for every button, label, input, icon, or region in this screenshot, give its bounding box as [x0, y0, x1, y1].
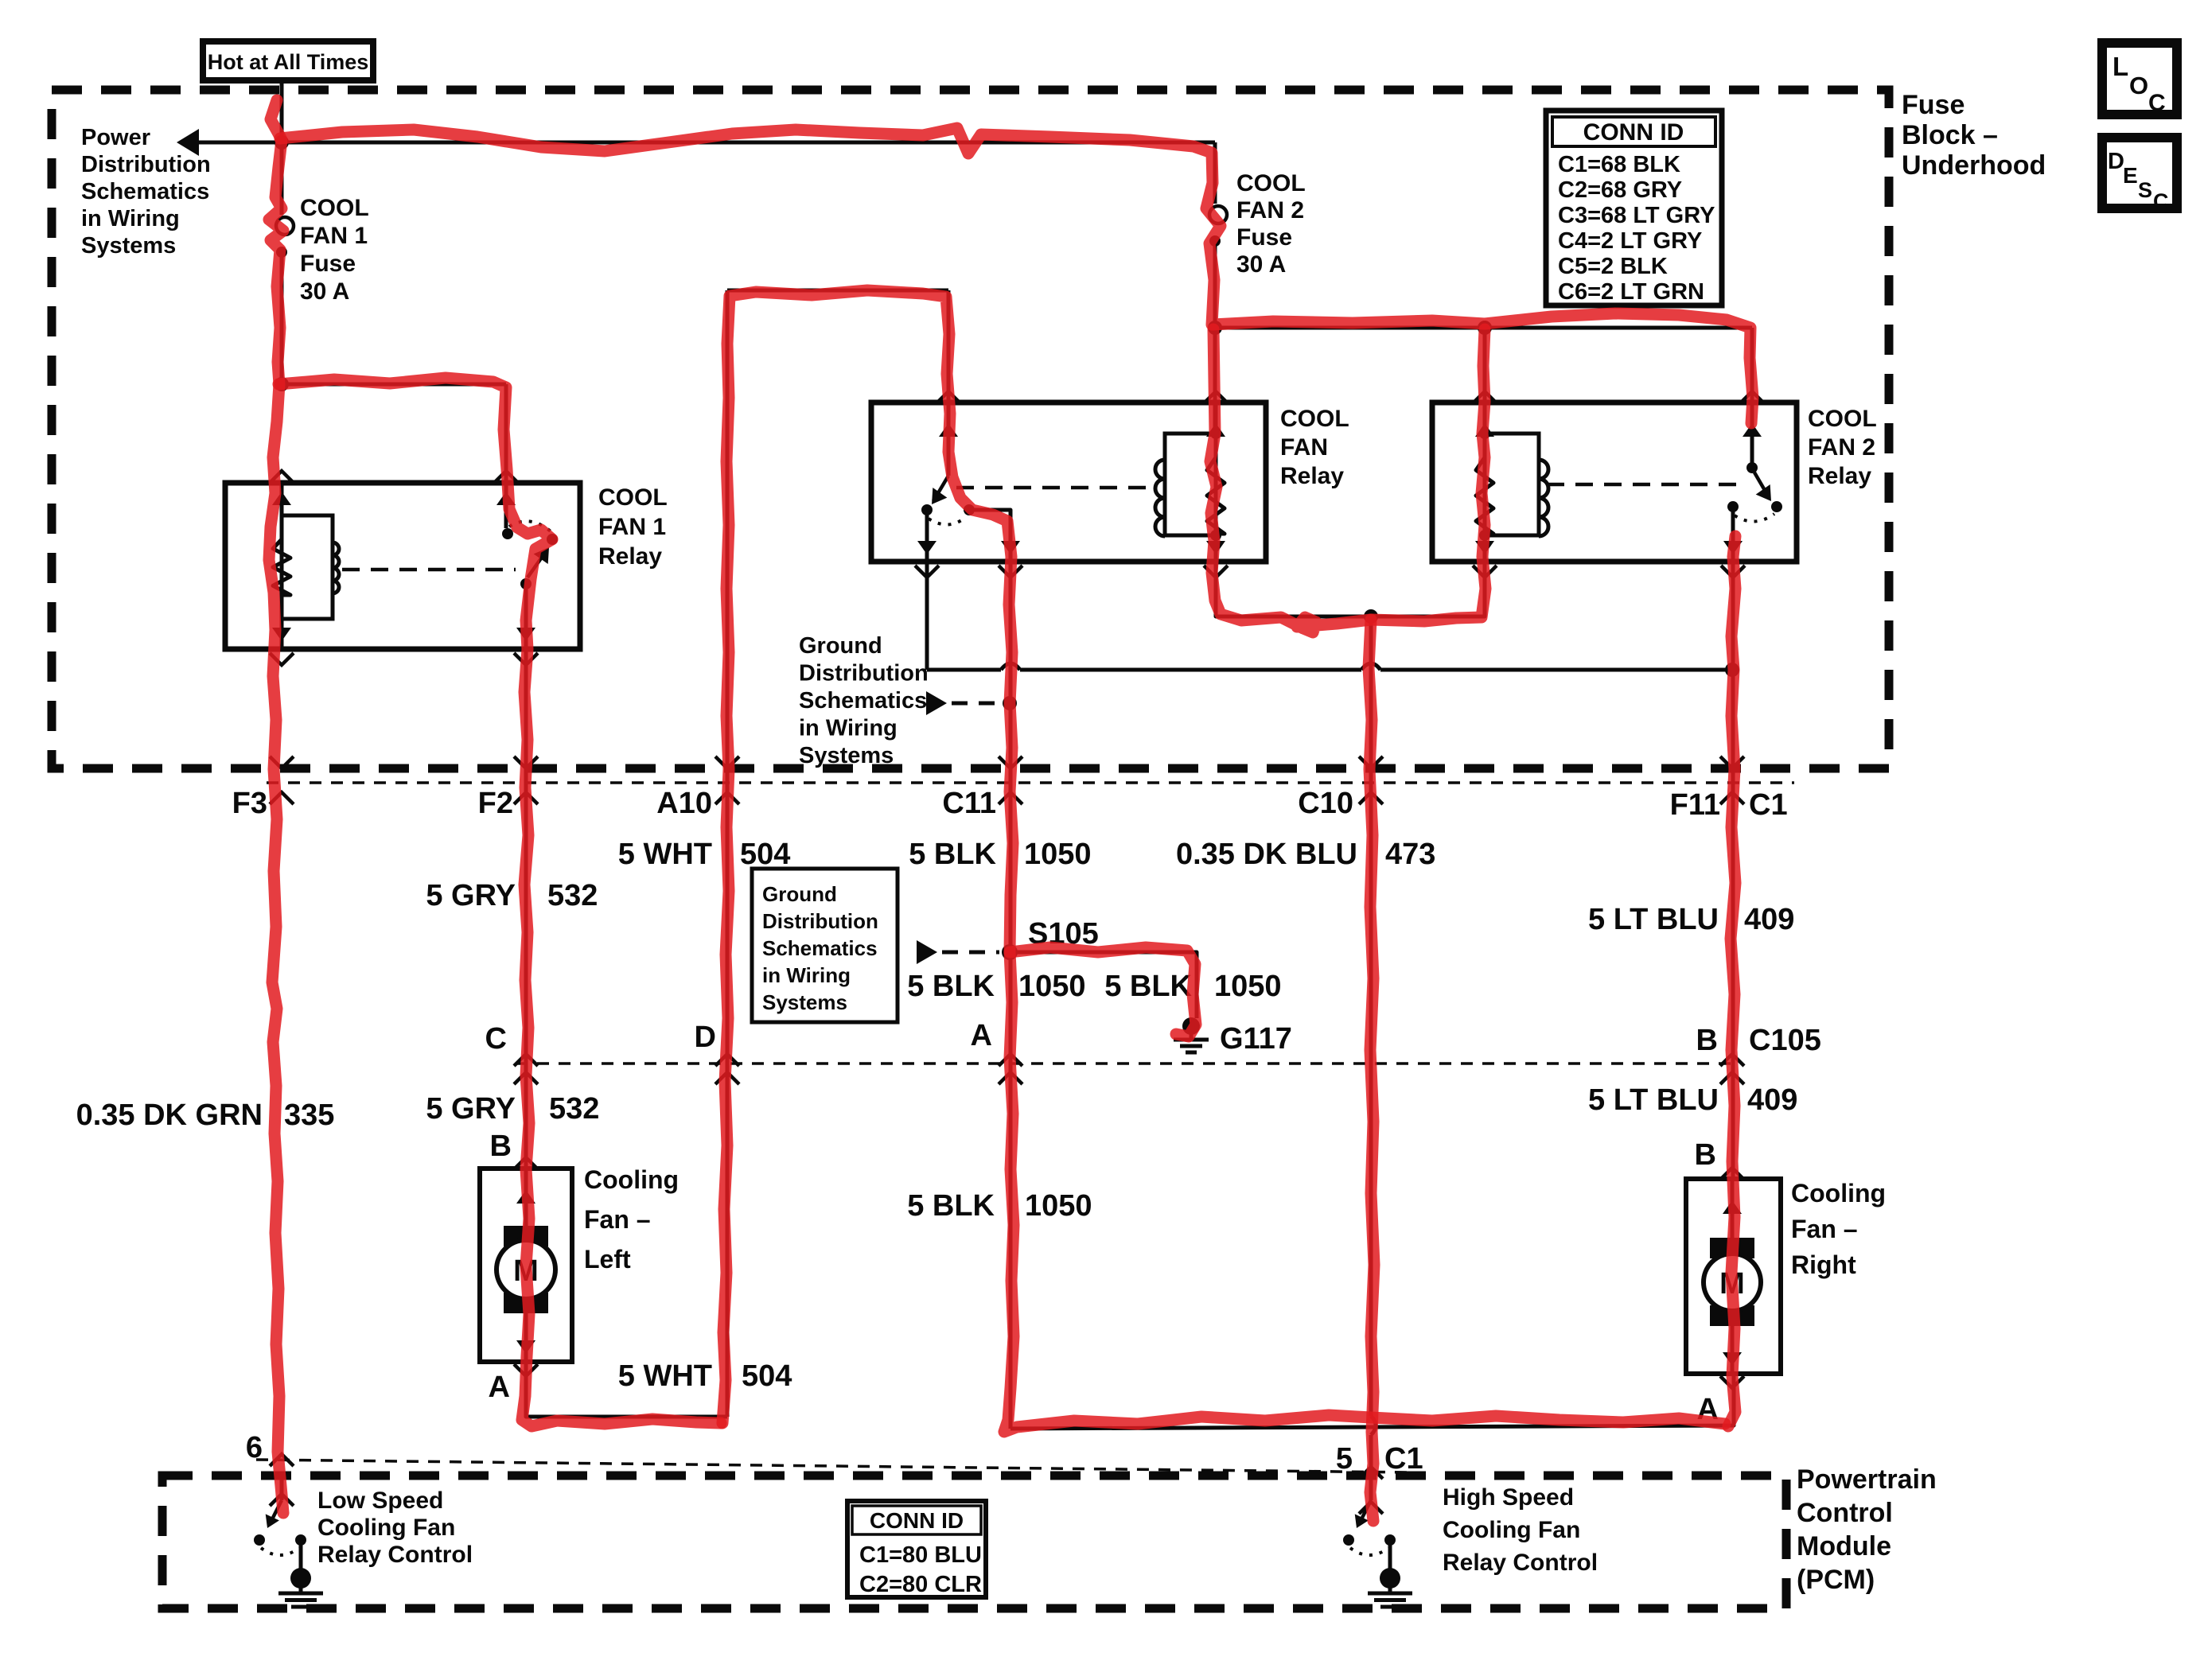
relay1 dashed link	[342, 568, 516, 572]
svg-text:Relay: Relay	[1808, 463, 1871, 489]
junction node coil bus	[1364, 609, 1378, 624]
svg-text:504: 504	[740, 838, 790, 871]
label box Hot at All Times	[203, 41, 373, 80]
right fan feed wire	[1731, 1179, 1735, 1241]
relay3 coil low wire	[1483, 535, 1487, 562]
svg-text:5 GRY: 5 GRY	[426, 1092, 516, 1126]
svg-text:Powertrain: Powertrain	[1797, 1464, 1937, 1495]
fuse block pin chevrons F3	[270, 756, 294, 768]
svg-text:Module: Module	[1797, 1531, 1891, 1561]
svg-text:C2=68 GRY: C2=68 GRY	[1558, 177, 1682, 203]
relay3 switch pivot dot	[1746, 462, 1758, 473]
svg-text:1050: 1050	[1214, 970, 1282, 1003]
right fan motor	[1710, 1238, 1754, 1258]
svg-text:Power: Power	[81, 125, 150, 150]
svg-text:30 A: 30 A	[1236, 251, 1286, 278]
relay3 switch arc	[1735, 514, 1774, 522]
wire middle relay switch feed	[947, 290, 951, 476]
svg-text:FAN: FAN	[1280, 434, 1328, 461]
svg-text:Schematics: Schematics	[762, 936, 878, 960]
relay COOL FAN box	[871, 402, 1266, 562]
svg-text:Left: Left	[584, 1245, 631, 1274]
junction node S105	[1002, 944, 1018, 960]
svg-text:F3: F3	[232, 787, 267, 820]
svg-text:Fuse: Fuse	[1236, 224, 1292, 251]
relay3 top chevrons	[1740, 391, 1764, 403]
svg-text:5 LT BLU: 5 LT BLU	[1588, 1083, 1719, 1117]
svg-text:COOL: COOL	[1280, 406, 1349, 432]
svg-text:FAN 1: FAN 1	[300, 223, 368, 249]
fuse block pin chevrons A10	[715, 756, 739, 768]
power distribution arrow	[177, 129, 199, 156]
fuse block bottom connector dashed line	[267, 781, 1794, 784]
svg-text:Cooling Fan: Cooling Fan	[1443, 1517, 1580, 1543]
DESC reference box	[2102, 138, 2177, 208]
svg-text:409: 409	[1747, 1083, 1797, 1117]
wire A10 riser	[726, 290, 730, 1417]
wire fuse2 drop	[1213, 142, 1217, 204]
wire fan2 switch output down	[1731, 562, 1735, 1179]
svg-text:5 BLK: 5 BLK	[907, 970, 995, 1003]
svg-text:5 LT BLU: 5 LT BLU	[1588, 903, 1719, 936]
svg-text:C1=68 BLK: C1=68 BLK	[1558, 152, 1680, 177]
relay1 coil resistor	[273, 539, 290, 595]
relay2 coil inductor	[1155, 460, 1165, 536]
svg-text:FAN 1: FAN 1	[598, 514, 666, 540]
svg-text:C5=2 BLK: C5=2 BLK	[1558, 254, 1668, 279]
svg-text:504: 504	[742, 1359, 792, 1393]
svg-text:C: C	[2153, 189, 2169, 213]
relay COOL FAN 2 box	[1432, 402, 1797, 562]
relay2 coil rect	[1165, 434, 1216, 535]
relay2 switch arc	[929, 517, 966, 525]
red trace high speed drop	[1369, 620, 1374, 1521]
relay1 switch pivot dot	[520, 578, 532, 589]
fuse block pin chevrons F11	[1720, 756, 1744, 768]
relay2 switch pivot dot	[921, 504, 933, 515]
svg-text:532: 532	[547, 879, 598, 912]
wire high speed control drop	[1369, 616, 1373, 1416]
relay1 bottom chevrons	[270, 653, 294, 665]
C105 pin chevrons B	[1720, 1054, 1744, 1066]
svg-text:532: 532	[549, 1092, 599, 1126]
svg-text:D: D	[2108, 149, 2124, 174]
relay1 coil inductor	[333, 542, 339, 593]
junction node ground tap	[1003, 696, 1017, 710]
relay3 coil resistor	[1476, 457, 1493, 534]
svg-text:Schematics: Schematics	[81, 179, 209, 204]
PCM high speed ground	[1380, 1568, 1400, 1589]
red trace S105 to G117	[1010, 947, 1196, 1036]
fuse COOL FAN 1 symbol	[276, 217, 294, 235]
svg-text:335: 335	[284, 1099, 334, 1132]
red trace fan2 switch output to right fan	[1728, 536, 1735, 1426]
relay2 switch contact dot	[964, 504, 975, 515]
svg-text:in Wiring: in Wiring	[799, 716, 898, 741]
svg-text:C1: C1	[1384, 1442, 1423, 1476]
svg-text:COOL: COOL	[1808, 406, 1877, 432]
svg-text:5 BLK: 5 BLK	[909, 838, 996, 871]
PCM wire pin6 entry	[280, 1476, 284, 1500]
C105 pin chevrons A	[999, 1054, 1022, 1066]
svg-text:C3=68 LT GRY: C3=68 LT GRY	[1558, 203, 1715, 228]
PCM low speed switch	[271, 1500, 282, 1522]
PCM pin chevrons pin5	[1359, 1467, 1383, 1479]
wire S105 branch	[1010, 952, 1197, 1018]
svg-text:COOL: COOL	[1236, 170, 1306, 196]
wire ground bottom run	[1010, 1374, 1734, 1429]
PCM pin chevrons pin6	[270, 1454, 294, 1466]
relay3 dashed link	[1547, 483, 1744, 487]
relay2 arrowheads	[939, 423, 958, 437]
svg-text:C: C	[2148, 90, 2166, 116]
svg-text:O: O	[2129, 72, 2148, 99]
relay3 coil dots	[1479, 428, 1490, 439]
svg-text:C105: C105	[1749, 1024, 1821, 1057]
svg-text:Systems: Systems	[762, 990, 847, 1014]
svg-text:A10: A10	[656, 787, 712, 820]
wire fan2 coil drop	[1483, 328, 1487, 434]
relay2 bottom chevrons	[915, 566, 939, 577]
svg-text:C4=2 LT GRY: C4=2 LT GRY	[1558, 228, 1702, 254]
svg-text:CONN ID: CONN ID	[1583, 119, 1684, 146]
relay3 switch output wire	[1731, 511, 1735, 562]
relay2 coil dots	[1210, 428, 1221, 439]
motor Cooling Fan Left box	[480, 1169, 572, 1362]
svg-text:COOL: COOL	[300, 195, 369, 221]
PCM dashed border	[162, 1476, 1786, 1608]
relay2 coil resistor	[1207, 457, 1225, 534]
relay1 top chevrons	[270, 471, 294, 483]
relay3 coil rect	[1485, 434, 1539, 535]
svg-text:5 GRY: 5 GRY	[426, 879, 516, 912]
fuse block underhood dashed border	[52, 90, 1889, 768]
fuse block pin chevrons F2	[514, 756, 538, 768]
red trace hot feed and low speed control	[269, 100, 283, 1513]
svg-text:Underhood: Underhood	[1902, 150, 2046, 181]
svg-text:0.35 DK GRN: 0.35 DK GRN	[76, 1099, 263, 1132]
fuse block pin chevrons C11	[999, 756, 1022, 768]
svg-text:A: A	[489, 1371, 510, 1404]
svg-text:Relay Control: Relay Control	[1443, 1550, 1598, 1576]
relay2 dashed link	[956, 486, 1154, 490]
wire F2 run	[524, 649, 528, 1169]
svg-text:Ground: Ground	[799, 633, 882, 659]
svg-text:Distribution: Distribution	[81, 152, 211, 177]
motor Cooling Fan Right box	[1686, 1179, 1781, 1374]
relay1 switch output wire	[524, 587, 528, 649]
C105 pin chevrons C	[514, 1054, 538, 1066]
svg-text:5: 5	[1336, 1442, 1353, 1476]
left fan motor	[504, 1226, 548, 1246]
ground G117 symbol	[1182, 1017, 1200, 1035]
svg-text:Cooling: Cooling	[1791, 1179, 1886, 1207]
red trace coil low bus and high speed control	[1210, 329, 1486, 632]
svg-text:A: A	[971, 1019, 992, 1052]
svg-text:Fan –: Fan –	[1791, 1215, 1858, 1243]
svg-text:FAN 2: FAN 2	[1808, 434, 1875, 461]
relay3 coil inductor	[1539, 460, 1548, 536]
PCM top connector dashed line	[256, 1460, 1408, 1472]
svg-text:6: 6	[246, 1431, 263, 1464]
svg-text:in Wiring: in Wiring	[81, 206, 180, 231]
svg-text:B: B	[1695, 1138, 1716, 1172]
svg-text:5 BLK: 5 BLK	[907, 1189, 995, 1223]
svg-text:Hot at All Times: Hot at All Times	[208, 50, 369, 74]
svg-text:C10: C10	[1298, 787, 1353, 820]
svg-text:G117: G117	[1220, 1022, 1292, 1056]
svg-text:Cooling: Cooling	[584, 1165, 679, 1194]
relay2 wire through coil	[1214, 402, 1218, 562]
relay3 switch contact dot right	[1771, 501, 1782, 512]
ground distribution leader upper	[926, 691, 947, 715]
wire hot feed to fuse 1	[280, 80, 284, 215]
wire coil low bus	[1216, 562, 1485, 616]
junction node fan2 coil feed	[1478, 321, 1492, 335]
svg-text:Low Speed: Low Speed	[317, 1487, 443, 1514]
left fan out wire	[524, 1311, 528, 1362]
relay1 coil rect	[282, 515, 333, 619]
svg-text:F2: F2	[478, 787, 513, 820]
junction node power tap	[275, 135, 289, 150]
relay1 wire through coil	[280, 483, 284, 649]
LOC reference box	[2102, 43, 2177, 115]
svg-text:C1=80 BLU: C1=80 BLU	[859, 1542, 982, 1568]
svg-text:Control: Control	[1797, 1498, 1893, 1528]
svg-text:B: B	[490, 1130, 512, 1163]
svg-text:in Wiring: in Wiring	[762, 963, 851, 987]
relay2 switch common wire	[925, 514, 929, 562]
svg-text:Distribution: Distribution	[799, 661, 929, 686]
svg-text:B: B	[1696, 1024, 1718, 1057]
red trace 5WHT riser middle relay and ground run	[722, 290, 1725, 1432]
svg-text:Relay: Relay	[1280, 463, 1344, 489]
svg-text:Systems: Systems	[799, 743, 894, 768]
svg-text:C2=80 CLR: C2=80 CLR	[859, 1572, 982, 1597]
fuse block pin chevrons C10	[1359, 756, 1383, 768]
red trace relay1 branch and left fan	[278, 378, 721, 1426]
wire left fan A run	[526, 1362, 727, 1417]
svg-text:C6=2 LT GRN: C6=2 LT GRN	[1558, 279, 1704, 305]
svg-text:Block –: Block –	[1902, 120, 1998, 150]
relay2 switch armature	[933, 476, 948, 501]
CONN ID table fuse block	[1546, 111, 1722, 305]
svg-text:Ground: Ground	[762, 882, 837, 906]
svg-text:Cooling Fan: Cooling Fan	[317, 1515, 455, 1541]
junction node relay1 branch	[275, 377, 289, 391]
wire top bus	[282, 141, 1215, 145]
junction node fuse2 bus	[1208, 321, 1222, 335]
relay3 bottom chevrons	[1473, 566, 1497, 577]
svg-text:Fuse: Fuse	[1902, 90, 1965, 120]
red trace top bus to fan2 relay and right fan	[280, 128, 1753, 423]
relay1 switch arc	[509, 521, 551, 531]
left fan arrowheads	[516, 1190, 535, 1204]
relay2 top chevrons	[937, 391, 960, 403]
relay3 switch contact dot left	[1727, 501, 1739, 512]
fuse COOL FAN 2 symbol	[1209, 206, 1227, 224]
relay1 switch common dot	[502, 528, 513, 539]
svg-text:C: C	[485, 1022, 507, 1056]
relay1 feed branch	[282, 383, 506, 387]
wire relay common bus	[925, 562, 929, 670]
wire C11 ground run	[1009, 562, 1013, 1429]
svg-text:Systems: Systems	[81, 233, 176, 259]
relay2 switch NO elbow	[969, 510, 1010, 562]
relay3 arrowheads	[1743, 423, 1762, 437]
relay3 switch armature	[1754, 472, 1769, 497]
svg-text:High Speed: High Speed	[1443, 1484, 1574, 1511]
svg-text:Fuse: Fuse	[300, 251, 356, 277]
PCM wire pin5 entry	[1369, 1499, 1373, 1500]
ground distribution leader lower	[917, 940, 937, 964]
svg-text:(PCM): (PCM)	[1797, 1565, 1875, 1595]
left fan chevrons	[514, 1157, 538, 1169]
right fan chevrons	[1720, 1168, 1744, 1180]
svg-text:0.35 DK BLU: 0.35 DK BLU	[1176, 838, 1357, 871]
svg-text:COOL: COOL	[598, 484, 668, 511]
wire relay feed bus	[1215, 326, 1752, 330]
wire fan2 switch drop	[1750, 328, 1754, 465]
CONN ID table PCM	[847, 1501, 986, 1597]
right fan out wire	[1731, 1324, 1735, 1374]
svg-text:Distribution: Distribution	[762, 909, 878, 933]
svg-text:Fan –: Fan –	[584, 1205, 651, 1234]
svg-text:Relay: Relay	[598, 543, 662, 570]
svg-text:5 WHT: 5 WHT	[618, 1359, 712, 1393]
PCM high speed switch	[1360, 1500, 1371, 1522]
svg-text:Schematics: Schematics	[799, 688, 927, 714]
svg-text:D: D	[695, 1021, 716, 1054]
svg-text:Relay Control: Relay Control	[317, 1542, 473, 1568]
svg-text:F11: F11	[1670, 788, 1720, 822]
relay1 switch contact dot	[547, 534, 558, 545]
svg-text:S: S	[2138, 178, 2152, 202]
svg-text:1050: 1050	[1018, 970, 1086, 1003]
svg-text:5 WHT: 5 WHT	[618, 838, 712, 871]
svg-text:1050: 1050	[1024, 838, 1092, 871]
right fan arrowheads	[1723, 1200, 1742, 1214]
C105 pin chevrons D	[715, 1054, 739, 1066]
relay1 switch armature	[528, 550, 547, 577]
svg-text:Right: Right	[1791, 1250, 1856, 1279]
svg-text:30 A: 30 A	[300, 278, 349, 305]
wire A10 top elbow	[727, 289, 948, 293]
connector C105 dashed line	[516, 1062, 1735, 1065]
svg-text:473: 473	[1385, 838, 1435, 871]
svg-text:C1: C1	[1749, 788, 1788, 822]
relay COOL FAN 1 box	[225, 483, 580, 649]
left fan feed wire	[524, 1169, 528, 1229]
svg-text:409: 409	[1744, 903, 1794, 936]
relay1 arrowheads	[272, 492, 291, 505]
svg-text:CONN ID: CONN ID	[870, 1508, 964, 1533]
svg-text:L: L	[2112, 52, 2128, 81]
svg-text:C11: C11	[942, 787, 996, 820]
svg-text:FAN 2: FAN 2	[1236, 197, 1304, 224]
junction node fan2 out	[1725, 663, 1739, 677]
ground distribution framed box	[752, 869, 898, 1022]
svg-text:5 BLK: 5 BLK	[1104, 970, 1192, 1003]
svg-text:1050: 1050	[1025, 1189, 1092, 1223]
svg-text:E: E	[2123, 163, 2138, 188]
PCM low speed ground	[290, 1568, 311, 1589]
